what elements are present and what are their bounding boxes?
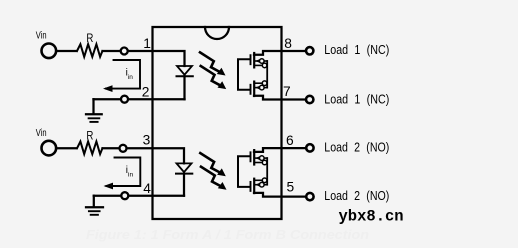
wire Vin2 to R2 [56, 147, 76, 149]
gate wire bracket Q1/Q2 [238, 59, 250, 90]
svg-text:Vin: Vin [36, 127, 47, 139]
svg-text:1: 1 [143, 36, 151, 51]
svg-text:4: 4 [143, 181, 151, 196]
wire pin 6 (drain Q3 to terminal) [254, 148, 305, 152]
transistor Q3 source ring [262, 160, 267, 165]
transistor Q3 body ring [260, 156, 265, 161]
svg-text:iin: iin [126, 67, 134, 81]
svg-text:Load 2 (NO): Load 2 (NO) [324, 188, 389, 203]
gate wire bracket Q3/Q4 [238, 156, 250, 187]
light arrow 2a [200, 153, 226, 176]
transistor Q2 channel bar [253, 82, 255, 96]
svg-text:Figure 1: 1 Form A / 1 Form B: Figure 1: 1 Form A / 1 Form B Connection [86, 228, 369, 242]
MOSFET pair block 2 (pins 6/5) [238, 133, 389, 203]
wire R1 to pin 1 node [103, 50, 121, 52]
resistor R1 [77, 44, 102, 57]
transistor Q1 body stub and arrow [255, 60, 267, 62]
LED D1 [177, 66, 192, 75]
svg-text:Load 1 (NC): Load 1 (NC) [324, 42, 389, 57]
light arrow 1a [200, 52, 226, 75]
junction node pin 3 [120, 145, 127, 152]
svg-text:ybx8.cn: ybx8.cn [339, 208, 404, 226]
wire R2 to pin 3 node [103, 147, 120, 149]
terminal pin 6 [306, 144, 313, 151]
current loop wire i_in (stage 1) [106, 60, 140, 89]
ground GND2 [86, 206, 103, 208]
LED D2 [177, 163, 192, 172]
wire LED D1 cathode to pin 2 [183, 76, 185, 99]
transistor Q3 gate bar [250, 152, 252, 161]
svg-text:Load 1 (NC): Load 1 (NC) [324, 91, 389, 106]
transistor Q1 source ring [262, 63, 267, 68]
light arrow 2b [201, 167, 227, 190]
transistor Q2 body ring [260, 85, 265, 90]
svg-text:6: 6 [286, 133, 294, 148]
wire pin 1 into package to LED D1 anode [128, 51, 184, 66]
terminal Vin2 [42, 141, 57, 156]
current loop wire i_in (stage 2) [107, 158, 141, 187]
transistor Q1 source stub [254, 64, 267, 66]
junction node pin 1 [121, 48, 128, 55]
junction node pin 2 [121, 96, 128, 103]
wire pin 2 [94, 98, 121, 100]
transistor Q4 body stub and arrow [255, 184, 267, 186]
svg-text:8: 8 [284, 36, 292, 51]
svg-text:3: 3 [143, 133, 151, 148]
wire common source rail [266, 61, 268, 88]
transistor Q4 channel bar [253, 179, 255, 193]
wire LED D2 cathode to pin 4 [183, 174, 185, 196]
transistor Q1 body ring [260, 59, 265, 64]
svg-text:2: 2 [142, 85, 150, 100]
terminal pin 7 [306, 96, 313, 103]
wire pin 2 into package [129, 98, 185, 100]
transistor Q4 body ring [260, 182, 265, 187]
transistor Q2 body stub and arrow [255, 87, 267, 89]
svg-text:iin: iin [126, 165, 134, 179]
wire common source rail block 2 [266, 158, 268, 185]
svg-text:Load 2 (NO): Load 2 (NO) [324, 140, 389, 155]
wire pin 5 (drain Q4 to terminal) [254, 193, 305, 197]
wire pin 4 into package [129, 195, 184, 197]
transistor Q2 source stub [254, 82, 267, 84]
transistor Q4 source ring [262, 178, 267, 183]
current arrow head i_in (stage 2) [104, 183, 114, 190]
junction node pin 4 [121, 192, 128, 199]
transistor Q2 source ring [262, 81, 267, 86]
wire pin 3 into package to LED D2 anode [127, 148, 184, 163]
terminal pin 5 [306, 193, 313, 200]
resistor R2 [77, 142, 102, 155]
wire pin 8 (drain Q1 to terminal) [254, 51, 305, 55]
terminal Vin1 [42, 44, 57, 59]
IC pin-1 notch [205, 27, 229, 39]
transistor Q4 source stub [254, 179, 267, 181]
transistor Q3 source stub [254, 162, 267, 164]
wire pin 4 [94, 195, 121, 197]
ground GND1 stem [92, 99, 94, 114]
transistor Q2 gate bar [250, 85, 252, 94]
transistor Q3 channel bar [253, 150, 255, 164]
svg-text:Vin: Vin [36, 30, 47, 42]
transistor Q1 gate bar [250, 55, 252, 64]
ground GND1 [86, 113, 102, 115]
transistor Q4 gate bar [250, 182, 252, 191]
ground GND2 stem [93, 196, 95, 207]
wire Vin1 to R1 [56, 50, 76, 52]
wire pin 7 (drain Q2 to terminal) [254, 96, 305, 100]
MOSFET pair block 1 (pins 8/7) [238, 36, 389, 107]
light arrow 1b [201, 66, 227, 89]
transistor Q3 body stub and arrow [255, 157, 267, 159]
svg-text:7: 7 [283, 84, 291, 99]
terminal pin 8 [306, 47, 313, 54]
IC package U1 outline [153, 27, 282, 219]
svg-text:R: R [86, 33, 93, 45]
svg-text:5: 5 [287, 180, 295, 195]
svg-text:R: R [86, 130, 93, 142]
current arrow head i_in (stage 1) [103, 85, 113, 92]
transistor Q1 channel bar [253, 53, 255, 67]
